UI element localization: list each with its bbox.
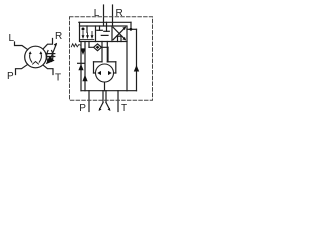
svg-text:P: P: [79, 103, 86, 114]
svg-text:T: T: [121, 103, 127, 114]
svg-text:R: R: [116, 8, 123, 19]
svg-text:P: P: [7, 71, 14, 82]
svg-text:T: T: [55, 73, 61, 84]
svg-text:L: L: [94, 8, 100, 19]
svg-text:L: L: [9, 33, 15, 44]
svg-text:R: R: [55, 31, 62, 42]
